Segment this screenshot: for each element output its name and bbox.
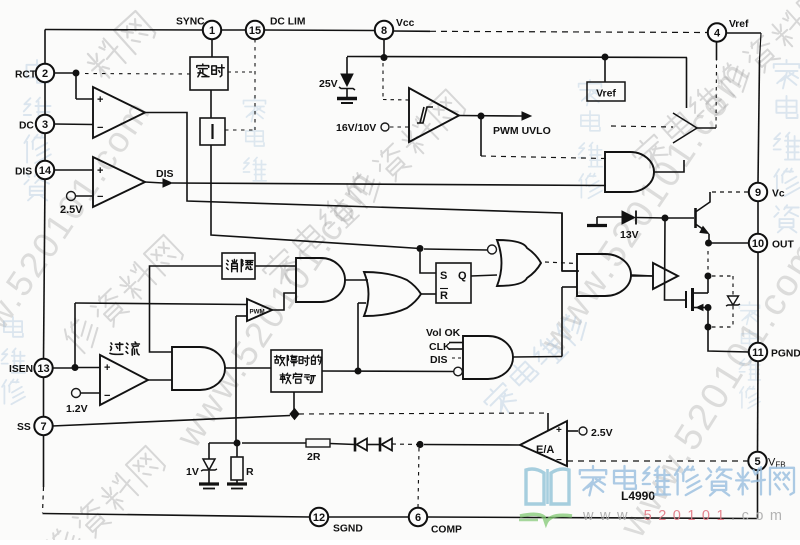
svg-text:Vc: Vc [772, 189, 785, 200]
svg-text:Vref: Vref [729, 19, 749, 30]
svg-text:Vol OK: Vol OK [426, 327, 461, 339]
svg-text:5: 5 [754, 456, 760, 468]
svg-text:2R: 2R [307, 451, 321, 463]
svg-text:−: − [104, 390, 110, 402]
svg-text:14: 14 [39, 165, 52, 177]
svg-text:+: + [104, 362, 110, 374]
svg-text:−: − [97, 122, 103, 134]
svg-text:15: 15 [249, 25, 261, 37]
svg-text:RCT: RCT [15, 70, 37, 81]
svg-text:E/A: E/A [536, 444, 554, 456]
svg-text:9: 9 [755, 187, 761, 199]
svg-text:www.520101.com: www.520101.com [582, 508, 788, 524]
svg-text:−: − [556, 455, 562, 466]
svg-text:+: + [97, 94, 103, 106]
svg-text:+: + [556, 425, 562, 436]
svg-text:Q: Q [458, 270, 467, 282]
svg-text:R: R [246, 466, 254, 478]
svg-text:Vref: Vref [596, 88, 616, 100]
svg-text:SGND: SGND [333, 524, 363, 535]
svg-text:12: 12 [313, 512, 325, 524]
svg-text:2.5V: 2.5V [591, 427, 613, 439]
svg-text:DIS: DIS [156, 168, 174, 180]
svg-text:1.2V: 1.2V [66, 403, 88, 415]
svg-text:2: 2 [42, 68, 48, 80]
svg-text:10: 10 [752, 238, 764, 250]
svg-text:CLK: CLK [429, 341, 451, 353]
svg-text:DIS: DIS [430, 354, 448, 366]
svg-text:7: 7 [40, 421, 46, 433]
svg-text:PGND: PGND [771, 349, 800, 360]
svg-text:SYNC: SYNC [176, 17, 205, 28]
svg-text:+: + [97, 165, 103, 177]
svg-text:6: 6 [415, 512, 421, 524]
svg-text:11: 11 [752, 347, 764, 359]
svg-text:13: 13 [37, 363, 49, 375]
svg-text:13V: 13V [620, 229, 639, 241]
svg-text:−: − [97, 191, 103, 203]
svg-text:2.5V: 2.5V [60, 204, 83, 216]
svg-text:25V: 25V [319, 78, 338, 90]
svg-text:S: S [440, 270, 447, 282]
svg-text:DIS: DIS [15, 167, 32, 178]
svg-text:DC: DC [19, 121, 34, 132]
svg-text:SS: SS [17, 422, 31, 433]
svg-text:1V: 1V [186, 466, 199, 478]
svg-text:Vcc: Vcc [396, 18, 415, 29]
svg-text:ISEN: ISEN [9, 364, 33, 375]
svg-text:3: 3 [42, 119, 48, 131]
svg-text:L4990: L4990 [621, 489, 655, 503]
svg-text:R: R [440, 290, 448, 302]
svg-text:16V/10V: 16V/10V [336, 122, 376, 134]
svg-text:1: 1 [209, 25, 215, 37]
svg-text:PWM UVLO: PWM UVLO [493, 125, 551, 137]
svg-text:8: 8 [381, 25, 387, 37]
svg-text:COMP: COMP [431, 525, 462, 536]
svg-text:DC LIM: DC LIM [270, 17, 305, 28]
svg-text:4: 4 [714, 28, 721, 40]
svg-text:PWM: PWM [250, 309, 265, 316]
svg-text:OUT: OUT [772, 240, 794, 251]
